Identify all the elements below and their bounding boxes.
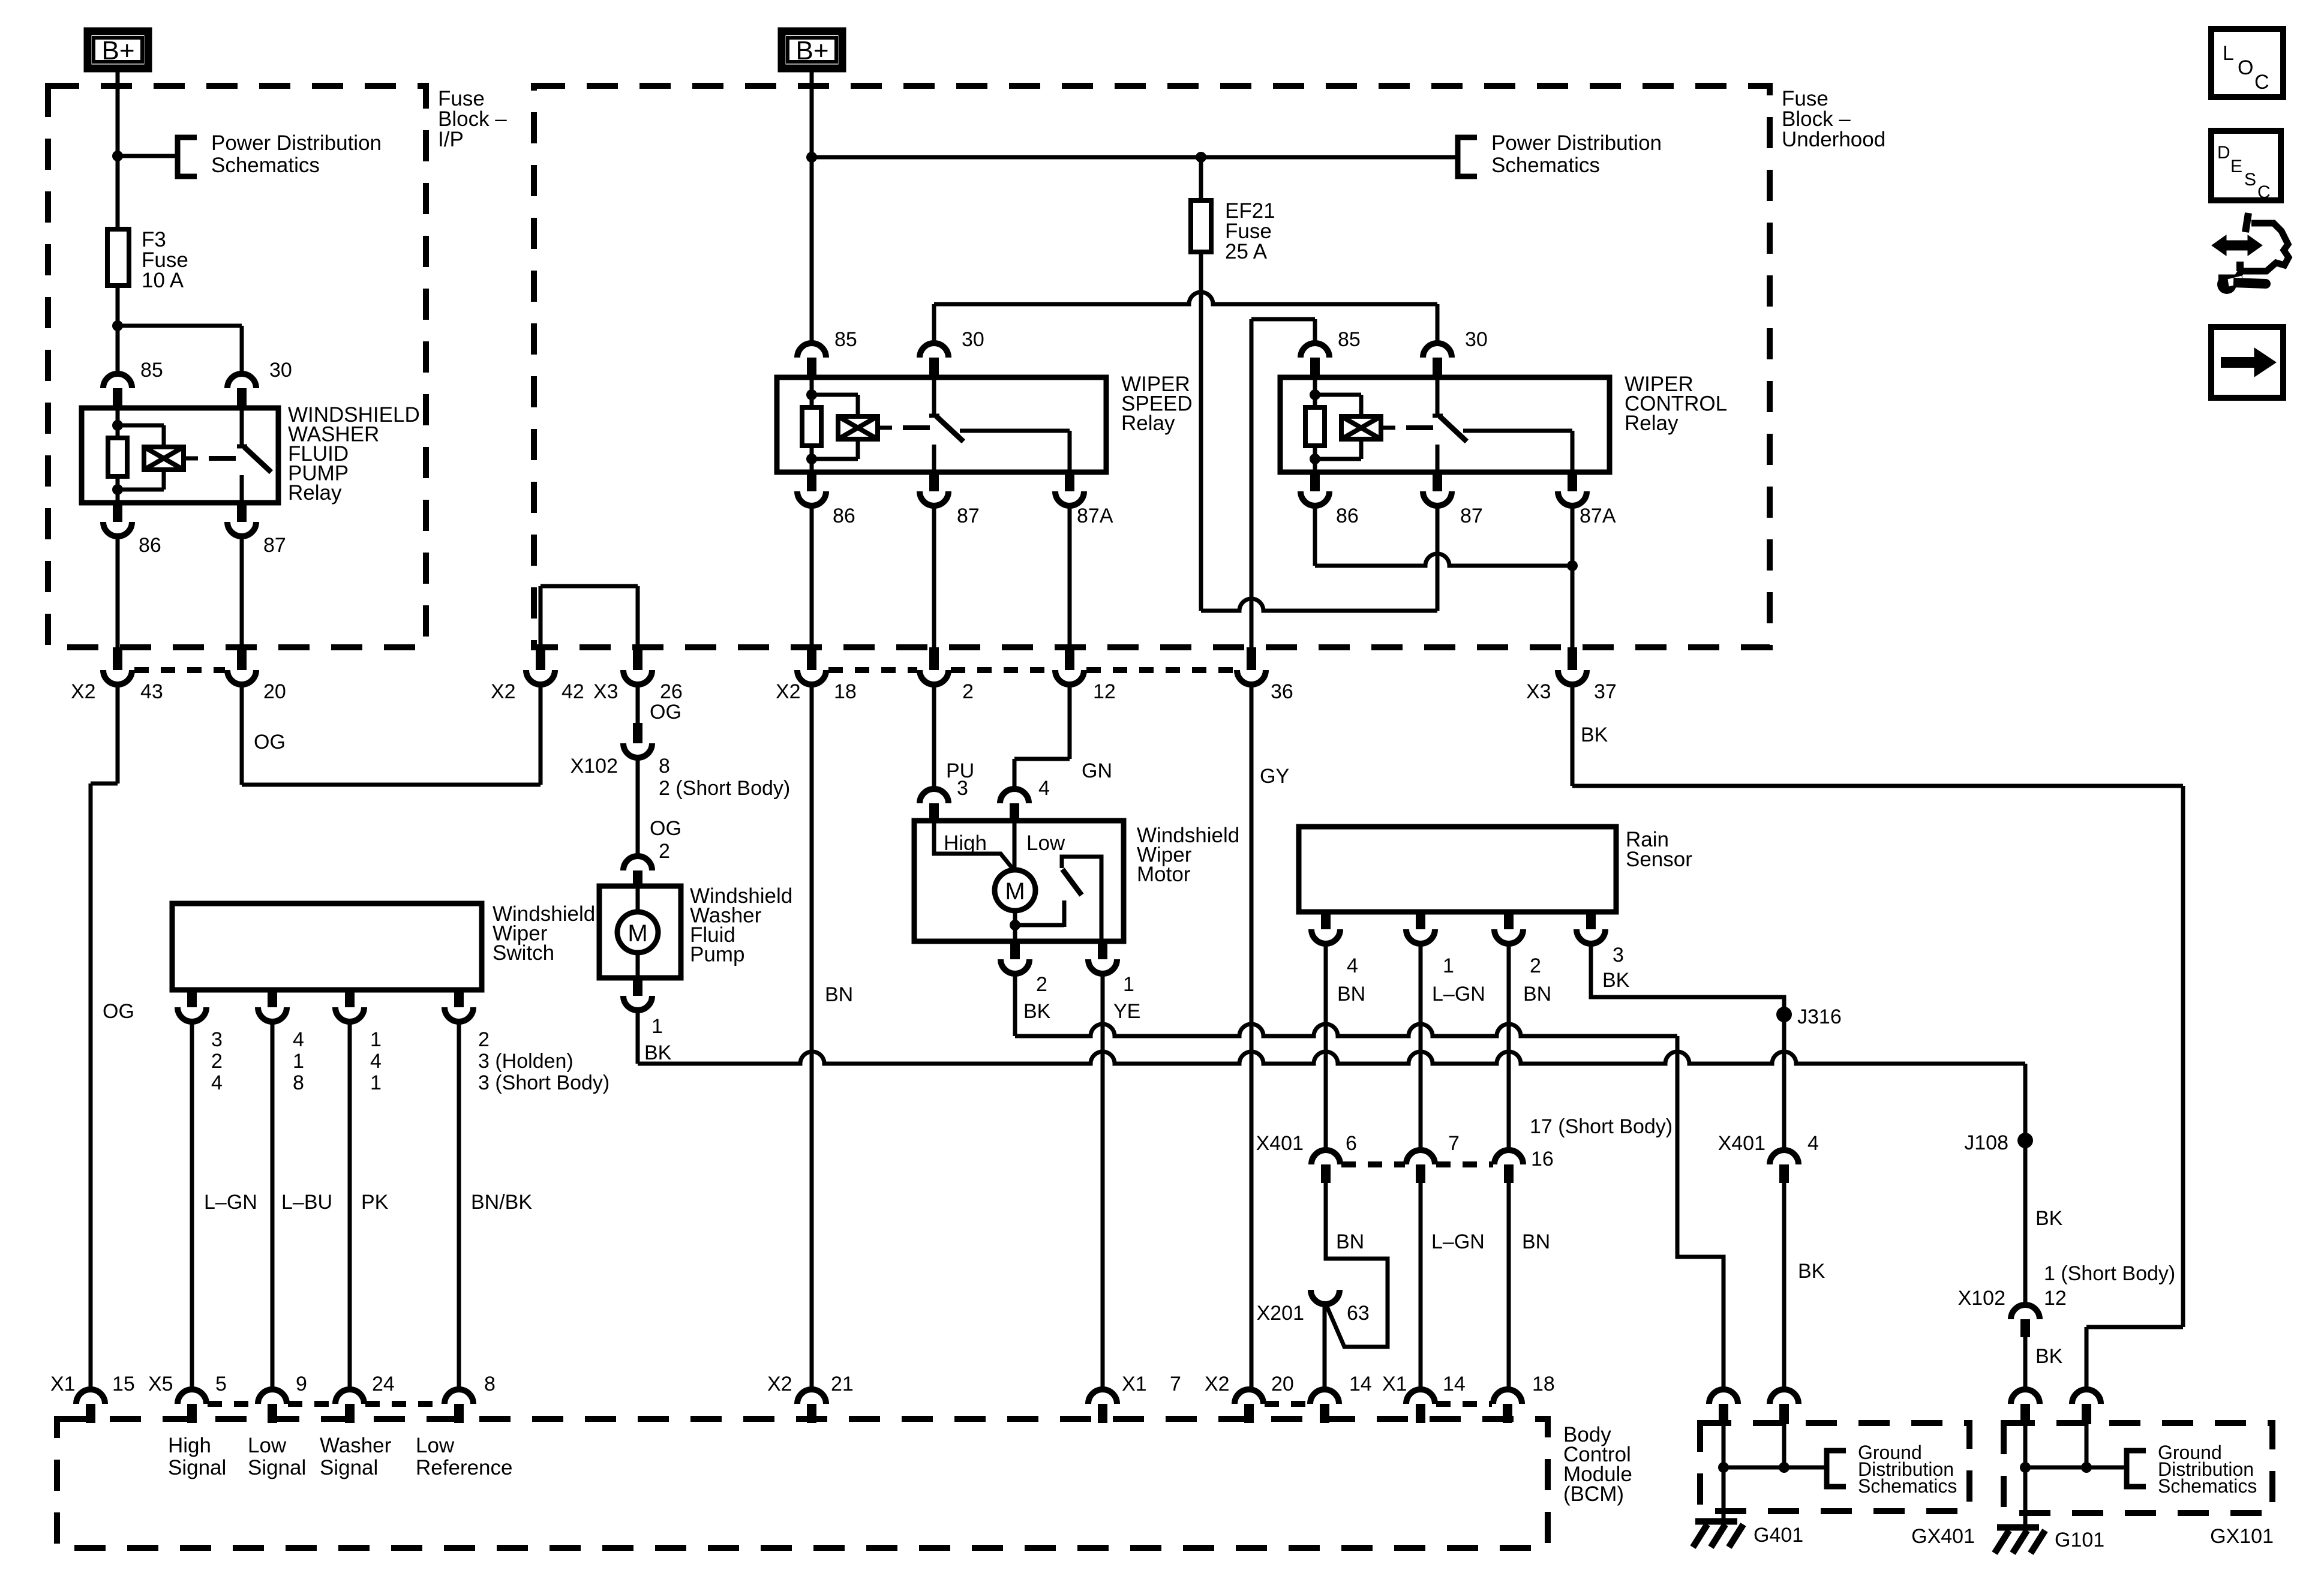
svg-text:C: C bbox=[2257, 182, 2271, 202]
svg-text:85: 85 bbox=[834, 328, 857, 351]
svg-text:OG: OG bbox=[103, 1000, 134, 1023]
svg-text:18: 18 bbox=[1532, 1373, 1555, 1395]
svg-text:85: 85 bbox=[1338, 328, 1361, 351]
svg-text:3: 3 bbox=[1613, 944, 1624, 966]
svg-text:87: 87 bbox=[957, 505, 980, 527]
svg-text:4: 4 bbox=[1807, 1132, 1819, 1155]
svg-text:S: S bbox=[2244, 170, 2256, 190]
svg-text:BK: BK bbox=[2035, 1207, 2063, 1230]
svg-text:9: 9 bbox=[296, 1373, 307, 1395]
svg-text:GX101: GX101 bbox=[2210, 1525, 2274, 1548]
svg-text:C: C bbox=[2254, 71, 2269, 94]
svg-text:4: 4 bbox=[211, 1071, 223, 1094]
svg-text:2: 2 bbox=[478, 1028, 490, 1051]
svg-text:D: D bbox=[2217, 143, 2230, 163]
svg-text:Relay: Relay bbox=[1625, 412, 1679, 435]
svg-text:4: 4 bbox=[293, 1028, 304, 1051]
svg-text:J108: J108 bbox=[1964, 1131, 2008, 1154]
svg-text:YE: YE bbox=[1113, 1000, 1140, 1023]
svg-text:High: High bbox=[944, 831, 987, 855]
svg-text:L–GN: L–GN bbox=[204, 1191, 257, 1214]
svg-text:Low: Low bbox=[248, 1434, 287, 1457]
svg-text:30: 30 bbox=[962, 328, 984, 351]
svg-text:BK: BK bbox=[1602, 969, 1630, 992]
svg-text:8: 8 bbox=[659, 755, 670, 778]
svg-text:21: 21 bbox=[831, 1373, 854, 1395]
svg-text:BN: BN bbox=[1523, 983, 1551, 1005]
svg-text:Schematics: Schematics bbox=[1491, 154, 1600, 177]
svg-text:Signal: Signal bbox=[168, 1456, 226, 1479]
svg-text:Power Distribution: Power Distribution bbox=[211, 131, 382, 155]
svg-text:BK: BK bbox=[1581, 724, 1608, 746]
svg-text:7: 7 bbox=[1448, 1132, 1460, 1155]
svg-text:High: High bbox=[168, 1434, 211, 1457]
svg-text:4: 4 bbox=[1347, 954, 1358, 977]
svg-text:(BCM): (BCM) bbox=[1563, 1482, 1624, 1506]
svg-text:GX401: GX401 bbox=[1911, 1525, 1975, 1548]
svg-text:37: 37 bbox=[1594, 680, 1617, 703]
svg-text:3 (Short Body): 3 (Short Body) bbox=[478, 1071, 609, 1094]
svg-text:Schematics: Schematics bbox=[2158, 1475, 2257, 1497]
svg-text:BN: BN bbox=[1522, 1230, 1550, 1253]
svg-text:X2: X2 bbox=[491, 680, 516, 703]
svg-text:85: 85 bbox=[140, 359, 163, 382]
svg-text:2: 2 bbox=[1036, 973, 1047, 996]
svg-text:L–GN: L–GN bbox=[1431, 1230, 1485, 1253]
svg-text:X201: X201 bbox=[1257, 1302, 1304, 1325]
svg-text:14: 14 bbox=[1349, 1373, 1372, 1395]
svg-text:X2: X2 bbox=[767, 1373, 792, 1395]
svg-text:Low: Low bbox=[1026, 831, 1065, 855]
svg-text:B+: B+ bbox=[795, 36, 828, 65]
svg-text:X1: X1 bbox=[1122, 1373, 1147, 1395]
svg-text:2: 2 bbox=[659, 840, 670, 863]
svg-text:87: 87 bbox=[1460, 505, 1483, 527]
svg-text:1 (Short Body): 1 (Short Body) bbox=[2044, 1262, 2175, 1285]
svg-text:X3: X3 bbox=[593, 680, 618, 703]
svg-text:26: 26 bbox=[660, 680, 683, 703]
svg-text:17 (Short Body): 17 (Short Body) bbox=[1530, 1115, 1673, 1138]
svg-text:X5: X5 bbox=[148, 1373, 173, 1395]
svg-text:20: 20 bbox=[263, 680, 286, 703]
svg-text:Low: Low bbox=[416, 1434, 455, 1457]
svg-text:12: 12 bbox=[2044, 1287, 2067, 1310]
svg-text:42: 42 bbox=[562, 680, 584, 703]
svg-text:7: 7 bbox=[1170, 1373, 1181, 1395]
svg-text:2: 2 bbox=[962, 680, 974, 703]
svg-text:30: 30 bbox=[269, 359, 292, 382]
svg-text:15: 15 bbox=[112, 1373, 135, 1395]
svg-text:63: 63 bbox=[1347, 1302, 1370, 1325]
svg-text:43: 43 bbox=[140, 680, 163, 703]
svg-text:86: 86 bbox=[1336, 505, 1359, 527]
svg-text:16: 16 bbox=[1531, 1148, 1554, 1170]
svg-text:Signal: Signal bbox=[320, 1456, 378, 1479]
svg-text:X2: X2 bbox=[1205, 1373, 1230, 1395]
svg-text:3 (Holden): 3 (Holden) bbox=[478, 1050, 574, 1073]
svg-text:J316: J316 bbox=[1797, 1005, 1842, 1028]
svg-text:OG: OG bbox=[254, 731, 286, 754]
svg-text:3: 3 bbox=[957, 777, 968, 800]
svg-text:8: 8 bbox=[293, 1071, 304, 1094]
svg-text:Power Distribution: Power Distribution bbox=[1491, 131, 1662, 155]
svg-text:Motor: Motor bbox=[1137, 863, 1191, 886]
svg-text:Switch: Switch bbox=[493, 941, 554, 965]
svg-text:36: 36 bbox=[1271, 680, 1293, 703]
svg-text:BN: BN bbox=[1336, 1230, 1364, 1253]
svg-text:14: 14 bbox=[1443, 1373, 1466, 1395]
svg-text:1: 1 bbox=[293, 1050, 304, 1073]
svg-text:M: M bbox=[1005, 878, 1025, 905]
svg-text:20: 20 bbox=[1271, 1373, 1294, 1395]
svg-text:G401: G401 bbox=[1753, 1524, 1803, 1547]
svg-text:X1: X1 bbox=[1382, 1373, 1407, 1395]
svg-text:1: 1 bbox=[1123, 973, 1134, 996]
svg-text:BK: BK bbox=[2035, 1345, 2063, 1368]
svg-text:Relay: Relay bbox=[1121, 412, 1175, 435]
svg-text:1: 1 bbox=[1443, 954, 1454, 977]
svg-text:G101: G101 bbox=[2055, 1529, 2104, 1551]
svg-text:M: M bbox=[627, 920, 647, 947]
svg-text:Sensor: Sensor bbox=[1626, 848, 1692, 871]
svg-text:BK: BK bbox=[1798, 1260, 1825, 1283]
svg-text:OG: OG bbox=[650, 817, 681, 840]
svg-text:L: L bbox=[2223, 42, 2234, 65]
svg-text:OG: OG bbox=[650, 701, 681, 724]
svg-text:87A: 87A bbox=[1077, 505, 1113, 527]
svg-text:BN/BK: BN/BK bbox=[471, 1191, 532, 1214]
svg-text:4: 4 bbox=[1038, 777, 1050, 800]
svg-text:Underhood: Underhood bbox=[1782, 128, 1885, 151]
svg-text:X102: X102 bbox=[571, 755, 618, 778]
svg-text:10 A: 10 A bbox=[142, 269, 184, 292]
svg-text:X2: X2 bbox=[71, 680, 96, 703]
svg-text:Reference: Reference bbox=[416, 1456, 512, 1479]
svg-text:O: O bbox=[2238, 56, 2253, 79]
svg-text:PK: PK bbox=[361, 1191, 389, 1214]
svg-text:X1: X1 bbox=[50, 1373, 76, 1395]
svg-text:5: 5 bbox=[215, 1373, 227, 1395]
svg-text:87: 87 bbox=[263, 534, 286, 557]
svg-text:3: 3 bbox=[211, 1028, 223, 1051]
svg-text:25 A: 25 A bbox=[1225, 240, 1268, 263]
svg-text:87A: 87A bbox=[1580, 505, 1616, 527]
svg-text:BN: BN bbox=[1337, 983, 1365, 1005]
svg-text:X3: X3 bbox=[1526, 680, 1551, 703]
svg-text:1: 1 bbox=[370, 1028, 382, 1051]
svg-text:L–GN: L–GN bbox=[1432, 983, 1485, 1005]
svg-text:X401: X401 bbox=[1256, 1132, 1304, 1155]
svg-text:L–BU: L–BU bbox=[281, 1191, 332, 1214]
svg-text:Washer: Washer bbox=[320, 1434, 392, 1457]
svg-text:BN: BN bbox=[825, 983, 853, 1006]
svg-text:I/P: I/P bbox=[438, 128, 464, 151]
svg-text:X2: X2 bbox=[776, 680, 801, 703]
svg-text:4: 4 bbox=[370, 1050, 382, 1073]
svg-text:86: 86 bbox=[139, 534, 161, 557]
svg-text:12: 12 bbox=[1093, 680, 1116, 703]
svg-text:GN: GN bbox=[1082, 760, 1112, 782]
svg-text:E: E bbox=[2230, 157, 2242, 176]
svg-text:2 (Short Body): 2 (Short Body) bbox=[659, 777, 790, 800]
svg-text:30: 30 bbox=[1465, 328, 1488, 351]
svg-text:2: 2 bbox=[1530, 954, 1541, 977]
svg-text:18: 18 bbox=[834, 680, 857, 703]
svg-text:1: 1 bbox=[651, 1015, 663, 1038]
svg-text:B+: B+ bbox=[101, 36, 134, 65]
svg-text:X102: X102 bbox=[1958, 1287, 2005, 1310]
svg-text:BK: BK bbox=[1023, 1000, 1051, 1023]
svg-text:GY: GY bbox=[1260, 765, 1289, 788]
svg-text:1: 1 bbox=[370, 1071, 382, 1094]
svg-text:BK: BK bbox=[644, 1041, 672, 1064]
svg-text:2: 2 bbox=[211, 1050, 223, 1073]
svg-text:86: 86 bbox=[833, 505, 855, 527]
svg-text:Schematics: Schematics bbox=[1858, 1475, 1957, 1497]
svg-text:24: 24 bbox=[372, 1373, 395, 1395]
svg-text:Signal: Signal bbox=[248, 1456, 306, 1479]
svg-text:8: 8 bbox=[484, 1373, 496, 1395]
svg-text:6: 6 bbox=[1346, 1132, 1357, 1155]
svg-text:X401: X401 bbox=[1718, 1132, 1765, 1155]
svg-text:Schematics: Schematics bbox=[211, 154, 320, 177]
svg-text:Pump: Pump bbox=[690, 943, 744, 966]
svg-text:Relay: Relay bbox=[288, 481, 342, 505]
